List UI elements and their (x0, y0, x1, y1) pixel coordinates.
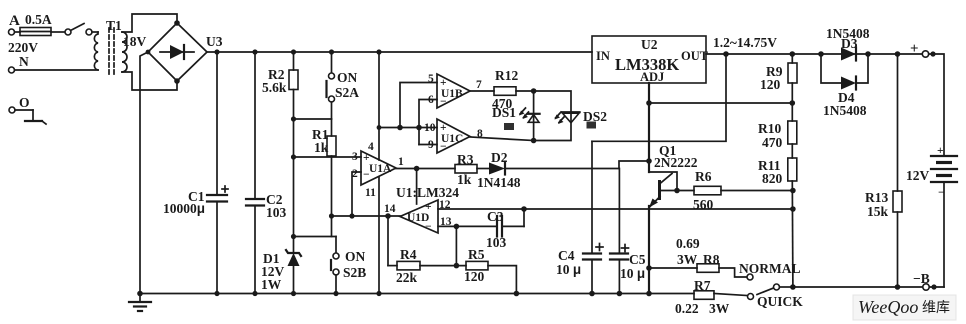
resistor R1 1k (312, 119, 336, 237)
svg-text:U1C: U1C (441, 133, 463, 145)
svg-text:2: 2 (352, 168, 358, 180)
wire U1B pin5 routing (400, 83, 437, 128)
diode D2 1N4148 (477, 150, 619, 190)
ground (earth symbol at O) (25, 121, 46, 124)
wire U1A V+ pin4 (376, 49, 381, 160)
terminal + (battery positive) (910, 41, 944, 156)
wire LED loop (534, 91, 571, 141)
svg-text:1k: 1k (457, 172, 472, 187)
svg-text:C5: C5 (629, 252, 646, 267)
battery 12V (906, 145, 957, 287)
switch S1 (mains) (65, 24, 98, 36)
svg-text:3W: 3W (677, 252, 698, 267)
regulator U2 LM338K (592, 36, 709, 84)
wire secondary bottom to bridge (122, 72, 177, 90)
resistor R9 120 (760, 51, 797, 121)
diode D3 1N5408 (818, 26, 871, 61)
LED DS2 (555, 109, 608, 129)
svg-text:维库: 维库 (922, 300, 950, 316)
wire U1C pin10 line (377, 125, 437, 131)
wire Q1 emitter to ground rail (646, 206, 652, 296)
node feedback line (R1/U1D out/U1A pin2) (329, 213, 400, 219)
wire U1A pin11 to ground (376, 177, 381, 296)
svg-text:R7: R7 (694, 278, 711, 293)
ground (main, below transformer) (129, 291, 151, 311)
svg-text:10000μ: 10000μ (163, 201, 205, 216)
svg-text:ADJ: ADJ (640, 70, 664, 84)
switch S2B (294, 237, 367, 297)
svg-text:OUT: OUT (681, 49, 709, 63)
wire bridge negative to bottom rail (140, 52, 148, 294)
node B (LED loop bottom) (531, 138, 537, 144)
resistor R11 820 (758, 158, 797, 290)
svg-text:0.22: 0.22 (675, 301, 699, 316)
wire R2 branch down / node to pin3 (291, 119, 361, 237)
svg-text:7: 7 (476, 79, 482, 91)
svg-text:103: 103 (266, 205, 287, 220)
svg-text:O: O (19, 95, 30, 110)
svg-text:14: 14 (384, 203, 396, 215)
wire U1B pin6 routing (419, 100, 437, 145)
svg-text:0.5A: 0.5A (25, 12, 52, 27)
switch lever (charge mode selector) (757, 284, 793, 295)
svg-text:0.69: 0.69 (676, 236, 700, 251)
svg-text:ON: ON (345, 249, 366, 264)
svg-text:R5: R5 (468, 247, 485, 262)
wire ADJ down (646, 83, 652, 172)
op-amp U1C (424, 119, 483, 153)
wire D2 to Q1 node (619, 161, 649, 169)
watermark WeeQoo (853, 295, 956, 320)
svg-text:C3: C3 (487, 209, 504, 224)
resistor R12 470 (470, 68, 534, 111)
zener D1 12V 1W (261, 234, 301, 296)
svg-text:DS1: DS1 (492, 105, 516, 120)
wire ground rail (bottom, left part) (140, 293, 694, 295)
svg-text:+: + (910, 41, 919, 57)
svg-text:10 μ: 10 μ (620, 266, 645, 281)
svg-text:N: N (19, 54, 29, 69)
svg-text:1N4148: 1N4148 (477, 175, 521, 190)
node A (LED loop top) (531, 88, 537, 94)
svg-text:R10: R10 (758, 121, 781, 136)
svg-text:D3: D3 (841, 36, 858, 51)
wire OUT rail (706, 51, 922, 57)
op-amp U1B (428, 73, 482, 108)
svg-text:R6: R6 (695, 169, 712, 184)
svg-text:1k: 1k (314, 140, 329, 155)
bridge rectifier (diamond) (146, 20, 207, 84)
terminal N (neutral) (9, 54, 99, 73)
svg-text:1.2~14.75V: 1.2~14.75V (713, 35, 777, 50)
wire ground rail (bottom, right part) (793, 286, 944, 288)
svg-text:560: 560 (693, 197, 714, 212)
svg-text:1W: 1W (261, 277, 282, 292)
resistor R7 0.22 3W (in ground path) (675, 278, 747, 316)
svg-text:3: 3 (352, 151, 358, 163)
svg-text:U1D: U1D (407, 212, 429, 224)
wire U1A output node (396, 166, 455, 204)
svg-text:R3: R3 (457, 152, 474, 167)
transformer T1 (94, 18, 146, 74)
svg-text:22k: 22k (396, 270, 418, 285)
svg-text:12V: 12V (906, 168, 930, 183)
terminal -B (913, 271, 937, 290)
svg-text:A: A (9, 13, 20, 29)
svg-text:U1A: U1A (369, 163, 392, 175)
transistor Q1 2N2222 (649, 143, 698, 208)
svg-text:QUICK: QUICK (757, 294, 803, 309)
svg-text:R13: R13 (865, 190, 888, 205)
svg-text:11: 11 (365, 187, 376, 199)
capacitor C5 10u (610, 169, 646, 297)
wire U1A pin2 feedback (352, 172, 361, 216)
wire C4 top to OUT rail (592, 54, 726, 141)
resistor R2 5.6k (262, 49, 298, 119)
svg-text:S2B: S2B (343, 265, 366, 280)
wire U1D pin13 branch (455, 226, 457, 265)
svg-text:R8: R8 (703, 252, 720, 267)
wire secondary top to bridge (122, 14, 177, 32)
svg-text:U3: U3 (206, 34, 223, 49)
contact NORMAL (739, 261, 801, 280)
svg-text:S2A: S2A (335, 85, 359, 100)
op-amp U1A (352, 141, 404, 199)
wire U1C pin9 stub (419, 144, 437, 146)
resistor R5 120 (464, 247, 519, 296)
svg-text:820: 820 (762, 171, 783, 186)
svg-text:R4: R4 (400, 247, 417, 262)
resistor R8 0.69 3W (649, 236, 747, 277)
contact QUICK (748, 294, 804, 310)
capacitor C3 103 (feedback) (438, 209, 524, 250)
svg-text:2N2222: 2N2222 (654, 155, 698, 170)
svg-text:15k: 15k (867, 204, 889, 219)
resistor R3 1k (455, 152, 489, 187)
svg-text:NORMAL: NORMAL (739, 261, 801, 276)
svg-text:220V: 220V (8, 40, 38, 55)
svg-text:C4: C4 (558, 248, 575, 263)
wire ADJ to R9 bottom (649, 102, 792, 104)
node U3 (206, 34, 223, 55)
capacitor C1 10000u (163, 52, 228, 296)
svg-text:18V: 18V (123, 34, 147, 49)
svg-text:1N5408: 1N5408 (823, 103, 867, 118)
terminal A (line input) (9, 13, 21, 35)
svg-text:103: 103 (486, 235, 507, 250)
resistor R4 22k (388, 216, 466, 285)
diode D4 1N5408 (parallel) (821, 54, 868, 118)
switch S2A (327, 49, 360, 119)
capacitor C4 10u (556, 141, 603, 296)
svg-text:5.6k: 5.6k (262, 80, 287, 95)
op-amp U1D (mirrored) (384, 199, 452, 233)
svg-text:3W: 3W (709, 301, 730, 316)
svg-text:U1:LM324: U1:LM324 (396, 185, 459, 200)
fuse 0.5A (15, 12, 66, 36)
svg-text:120: 120 (760, 77, 781, 92)
svg-text:WeeQoo: WeeQoo (858, 297, 918, 317)
resistor R10 470 (758, 121, 797, 158)
resistor R13 15k (865, 51, 902, 290)
svg-text:U1B: U1B (441, 88, 463, 100)
svg-text:U2: U2 (641, 37, 658, 52)
LED DS1 (492, 91, 540, 141)
svg-text:10 μ: 10 μ (556, 262, 581, 277)
svg-text:120: 120 (464, 269, 485, 284)
wire R2-S2A junction (291, 116, 332, 121)
svg-text:ON: ON (337, 70, 358, 85)
wire U1C pin8 output to node B (470, 137, 534, 141)
wire main positive rail (U3 to regulator IN) (207, 51, 592, 53)
svg-text:IN: IN (596, 49, 610, 63)
capacitor C2 103 (246, 49, 287, 296)
terminal O (earth) (9, 95, 33, 120)
resistor R6 560 (693, 169, 796, 212)
node C3 feedback / long line U1D pin12 (438, 206, 796, 212)
svg-text:470: 470 (762, 135, 783, 150)
svg-text:D2: D2 (491, 150, 508, 165)
svg-text:R12: R12 (495, 68, 518, 83)
svg-text:1: 1 (398, 156, 404, 168)
